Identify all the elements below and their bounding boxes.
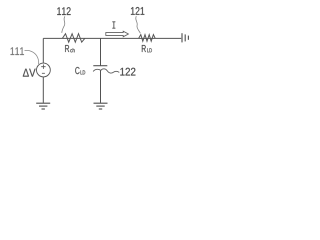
label 121 xyxy=(131,7,144,15)
leader line from 112 to R_ch xyxy=(62,16,65,33)
capacitor 122 top plate xyxy=(93,65,107,67)
wire: below capacitor down to middle ground xyxy=(100,70,102,103)
label R_ch subscript xyxy=(70,48,74,52)
ground symbol (left, under source) xyxy=(36,103,50,109)
wire: below voltage source down to left ground xyxy=(42,77,44,103)
label 111 xyxy=(11,47,24,55)
wire: left vertical drop to voltage source xyxy=(42,38,44,63)
resistor R_LD (ref 121) zigzag xyxy=(139,35,156,42)
label R_ch (resistor value) xyxy=(65,45,69,52)
label C_LD subscript xyxy=(81,70,86,74)
current label I (serif I-beam) xyxy=(112,22,115,28)
capacitor 122 curved bottom plate merging into squiggle leader toward label 122 xyxy=(93,69,119,73)
ground symbol (right, rotated, terminating the bus) xyxy=(182,33,188,42)
label ΔV (source value) xyxy=(23,69,36,77)
label C_LD (capacitor value) xyxy=(75,67,79,74)
ground symbol (middle, under capacitor) xyxy=(94,103,108,109)
voltage source 111 (circle with + / -) xyxy=(37,63,51,77)
leader line from 121 to R_LD xyxy=(136,16,141,33)
label R_LD subscript xyxy=(147,48,152,52)
label 112 xyxy=(57,7,70,15)
label 122 xyxy=(120,68,135,76)
leader line from 111 to source circle xyxy=(25,50,39,64)
current arrow I (outlined block arrow on bus) xyxy=(106,31,129,37)
resistor R_ch (ref 112) zigzag xyxy=(62,34,85,43)
wire: capacitor branch from junction node down to top plate xyxy=(100,38,102,65)
label R_LD (resistor value) xyxy=(142,45,146,52)
wire: top horizontal bus from source to right ground xyxy=(43,37,181,39)
